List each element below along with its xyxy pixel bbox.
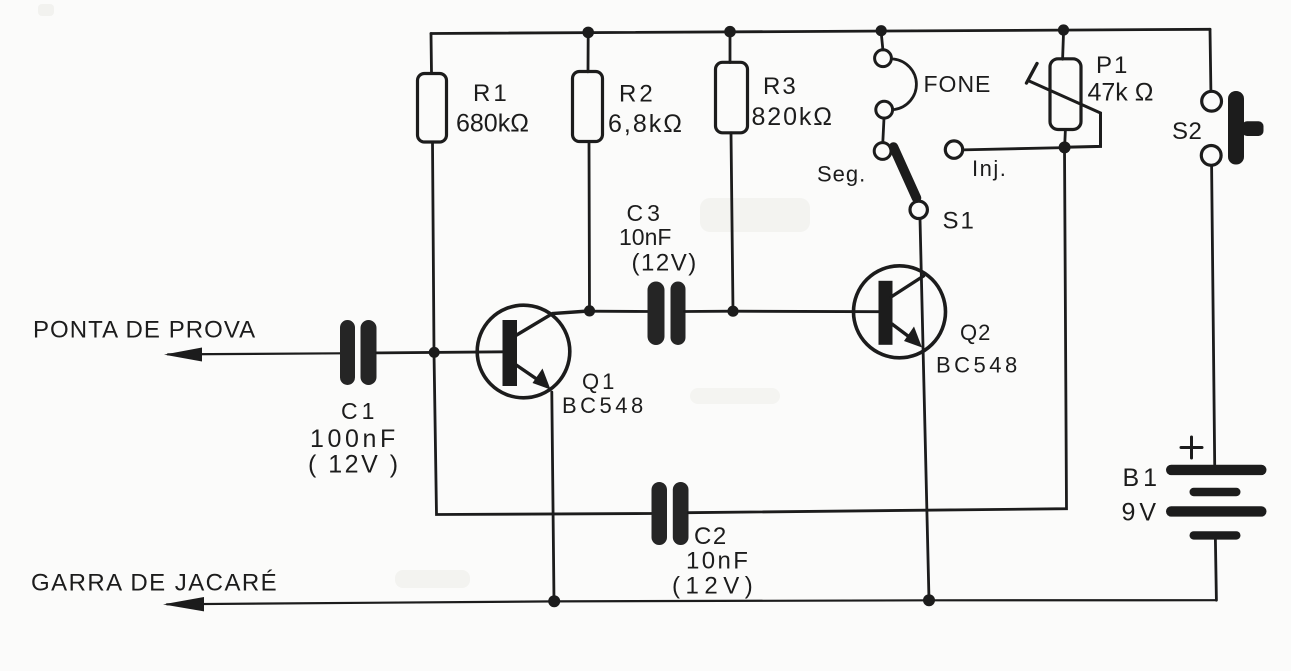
node R3 top junction dot bbox=[724, 26, 736, 38]
svg-text:S2: S2 bbox=[1172, 118, 1202, 145]
wire C2 right to P1 wiper node F bbox=[688, 148, 1066, 513]
svg-text:C2: C2 bbox=[694, 523, 728, 550]
svg-text:Q2: Q2 bbox=[960, 320, 991, 345]
battery plus sign bbox=[1181, 437, 1202, 458]
jack Inj. bbox=[945, 141, 1064, 158]
svg-text:BC548: BC548 bbox=[936, 353, 1021, 378]
wire C1 to Q1 base through node A bbox=[377, 352, 504, 353]
svg-text:Q1: Q1 bbox=[582, 369, 617, 394]
svg-text:100nF: 100nF bbox=[310, 425, 399, 453]
transistor Q1 bbox=[477, 305, 588, 398]
wire bottom ground rail with clip arrow bbox=[163, 597, 1217, 611]
resistor R1 bbox=[418, 34, 447, 143]
wire S1 down through Q2 to node E bbox=[920, 219, 929, 601]
node A junction dot bbox=[429, 347, 440, 358]
svg-text:R2: R2 bbox=[619, 81, 656, 108]
transistor Q2 bbox=[854, 266, 946, 358]
capacitor C1 bbox=[340, 320, 377, 385]
svg-text:BC548: BC548 bbox=[562, 393, 647, 418]
potentiometer P1 bbox=[1027, 33, 1101, 147]
svg-text:Seg.: Seg. bbox=[817, 162, 866, 187]
svg-text:( 12V ): ( 12V ) bbox=[308, 451, 401, 479]
svg-text:(12V): (12V) bbox=[672, 573, 758, 600]
battery B1 bbox=[1166, 465, 1267, 540]
wire R2 bottom lead to node B bbox=[588, 142, 591, 312]
node C junction dot bbox=[727, 306, 738, 317]
svg-text:C3: C3 bbox=[627, 200, 664, 226]
node B junction dot bbox=[584, 305, 595, 316]
svg-text:10nF: 10nF bbox=[686, 548, 750, 575]
node F wiper junction dot bbox=[1059, 141, 1071, 153]
switch S1 bbox=[874, 143, 927, 219]
svg-text:R3: R3 bbox=[763, 73, 798, 100]
node R2 top junction dot bbox=[582, 27, 594, 39]
wire Q1 emitter down to node D bbox=[552, 392, 554, 601]
capacitor C2 bbox=[652, 482, 689, 545]
svg-text:GARRA DE JACARÉ: GARRA DE JACARÉ bbox=[31, 570, 278, 597]
wire C3 to node C bbox=[685, 310, 734, 313]
svg-text:C1: C1 bbox=[341, 398, 378, 424]
svg-text:820kΩ: 820kΩ bbox=[752, 103, 834, 131]
capacitor C3 bbox=[648, 282, 686, 346]
svg-text:S1: S1 bbox=[943, 208, 976, 235]
node FONE top junction dot bbox=[876, 25, 887, 36]
svg-text:R1: R1 bbox=[473, 80, 510, 107]
wire R1 bottom lead to node A bbox=[433, 142, 435, 353]
svg-text:47k Ω: 47k Ω bbox=[1088, 79, 1154, 107]
wire node A down and across to C2 bbox=[434, 353, 652, 515]
svg-text:Inj.: Inj. bbox=[972, 156, 1007, 181]
svg-text:FONE: FONE bbox=[924, 71, 992, 97]
svg-text:6,8kΩ: 6,8kΩ bbox=[608, 110, 684, 138]
resistor R3 bbox=[716, 32, 748, 133]
headphone jack FONE bbox=[875, 34, 917, 118]
svg-text:B1: B1 bbox=[1123, 464, 1162, 492]
wire R3 bottom lead to node C bbox=[731, 133, 733, 311]
wire node C to Q2 base bbox=[733, 310, 880, 313]
arrow probe tip (ponta de prova) bbox=[164, 348, 341, 362]
svg-text:9V: 9V bbox=[1122, 499, 1161, 527]
svg-text:10nF: 10nF bbox=[619, 224, 671, 250]
wire battery negative to ground rail bbox=[1215, 540, 1216, 601]
wire S2 to battery positive bbox=[1212, 166, 1215, 465]
resistor R2 bbox=[573, 32, 603, 141]
node P1 top junction dot bbox=[1058, 24, 1069, 35]
node E junction dot bbox=[923, 594, 935, 606]
wire top supply rail bbox=[431, 29, 1210, 33]
wire top rail to S2 bbox=[1209, 29, 1213, 91]
wire node B to C3 bbox=[590, 310, 651, 313]
svg-text:680kΩ: 680kΩ bbox=[456, 110, 529, 138]
wire FONE bottom to S1 pole bbox=[883, 118, 884, 143]
svg-text:PONTA DE PROVA: PONTA DE PROVA bbox=[33, 317, 256, 344]
node D junction dot bbox=[548, 595, 560, 607]
pushbutton S2 bbox=[1201, 91, 1263, 165]
svg-text:P1: P1 bbox=[1096, 52, 1129, 79]
svg-text:(12V): (12V) bbox=[632, 250, 698, 277]
